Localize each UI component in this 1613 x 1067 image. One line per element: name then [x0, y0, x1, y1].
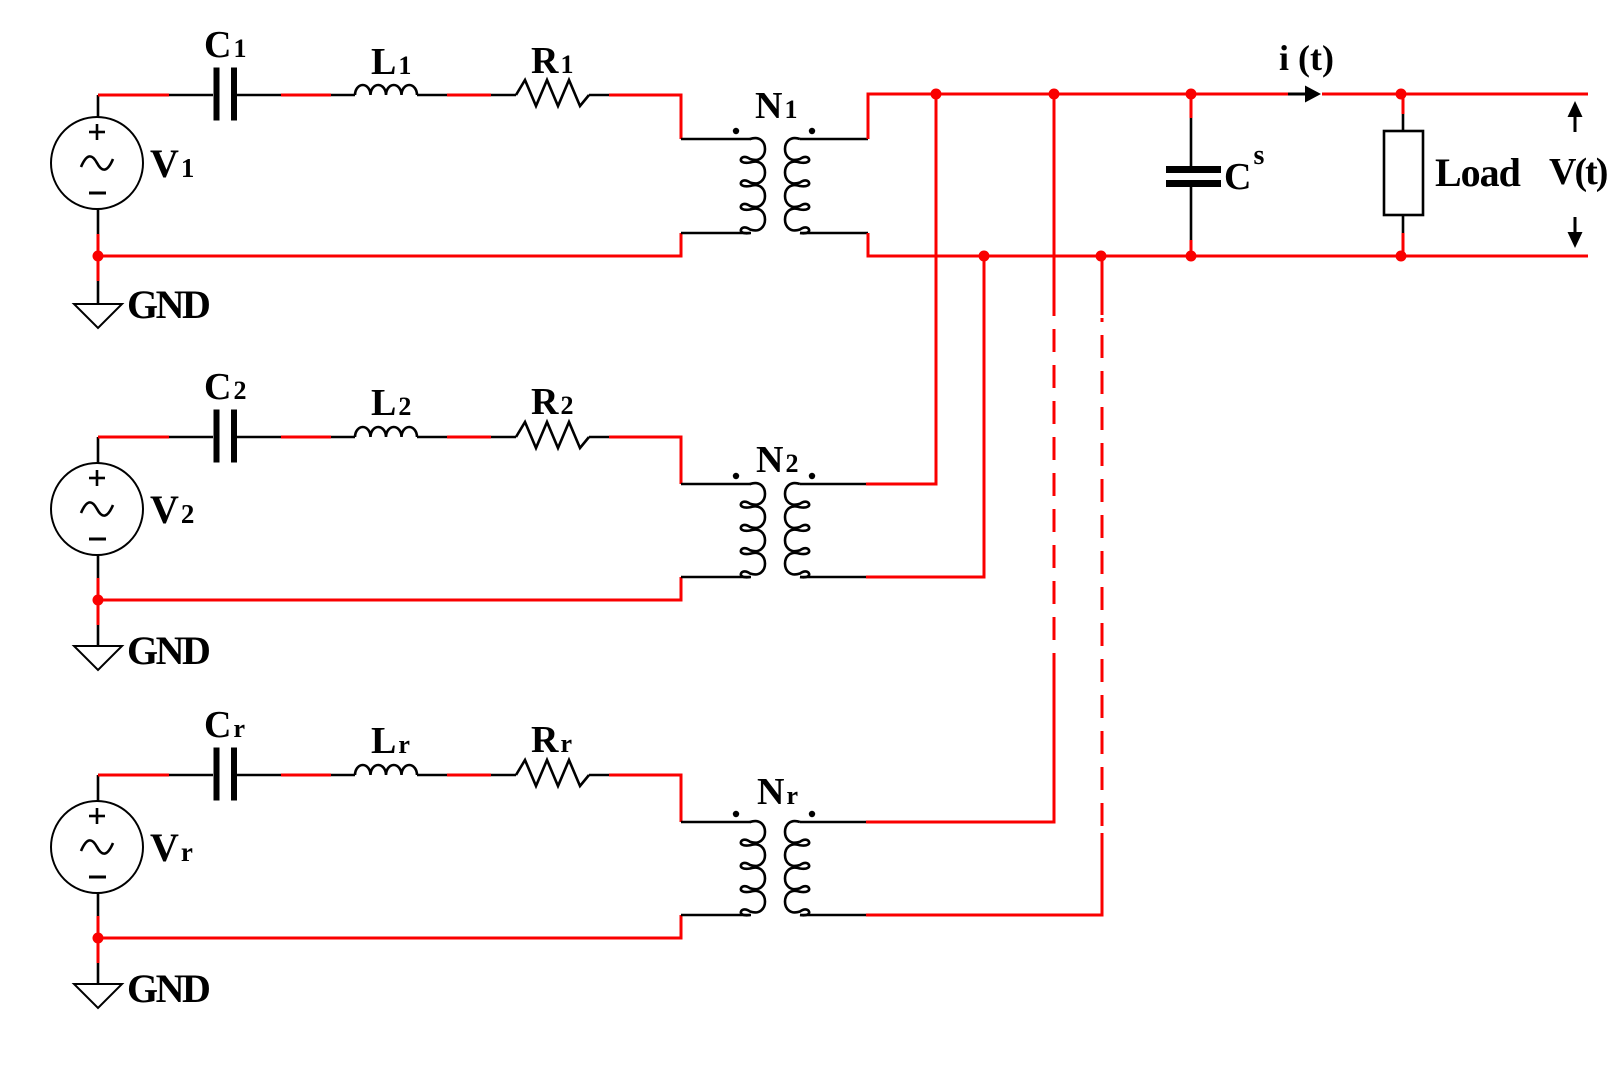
- current arrow i(t): [1288, 86, 1321, 103]
- voltage source V2: [51, 463, 143, 555]
- wire black after capacitor: [237, 94, 281, 97]
- wire red segment: [447, 774, 491, 777]
- wire black to inductor: [331, 94, 355, 97]
- wire red segment: [447, 94, 491, 97]
- wire red riser solid lower part: [1053, 676, 1056, 822]
- svg-text:GND: GND: [127, 282, 209, 327]
- wire top red from source: [98, 774, 169, 777]
- wire black primary bottom lead: [681, 232, 751, 235]
- wire red segment: [281, 94, 331, 97]
- wire black primary top lead: [681, 138, 751, 141]
- wire top red from source: [98, 436, 169, 439]
- wire red stub from top bus: [1402, 94, 1405, 114]
- capacitor Cr: [217, 748, 235, 801]
- wire red segment: [281, 436, 331, 439]
- wire red bottom return: [98, 599, 683, 602]
- capacitor Cs: [1166, 170, 1221, 184]
- wire red to dashed riser: [866, 914, 1104, 917]
- resistor R1: [516, 80, 589, 106]
- voltage source V1: [51, 117, 143, 209]
- voltage source Vr: [51, 801, 143, 893]
- wire N1 secondary top lead: [800, 138, 868, 141]
- wire red up to top bus: [867, 93, 870, 140]
- wire red riser solid top part: [1053, 94, 1056, 311]
- node bottom bus junction 1: [979, 251, 990, 262]
- wire black after inductor: [417, 94, 447, 97]
- transformer N1 secondary winding: [785, 138, 809, 233]
- wire N1 secondary bottom lead: [800, 232, 868, 235]
- wire black to resistor: [491, 774, 516, 777]
- wire red to dashed riser: [866, 821, 1056, 824]
- transformer N2 primary winding: [741, 483, 765, 577]
- wire to ground: [97, 938, 100, 984]
- capacitor C1: [217, 68, 235, 121]
- wire black after inductor: [417, 436, 447, 439]
- wire black after resistor: [589, 94, 609, 97]
- wire red stub to bottom bus: [1190, 240, 1193, 256]
- wire black primary bottom lead: [681, 914, 751, 917]
- resistor Rr: [516, 760, 589, 786]
- ground: [74, 304, 122, 328]
- node top bus junction 4: [1396, 89, 1407, 100]
- phase dot primary: [733, 811, 739, 817]
- inductor Lr: [355, 765, 417, 775]
- wire red to corner: [609, 94, 683, 97]
- wire red corner down to primary: [680, 436, 683, 485]
- wire black to inductor: [331, 436, 355, 439]
- wire red to vertical riser: [866, 483, 938, 486]
- wire red stub from top bus: [1190, 94, 1193, 118]
- wire black load top lead: [1402, 114, 1405, 131]
- arrow V(t) down: [1568, 217, 1583, 248]
- wire Nr secondary top lead: [800, 821, 866, 824]
- wire red bottom return: [98, 255, 683, 258]
- wire red riser N2 top to bus: [935, 94, 938, 484]
- node bottom bus junction 3: [1186, 251, 1197, 262]
- phase dot secondary: [809, 811, 815, 817]
- wire red corner down to primary: [680, 774, 683, 823]
- wire black after inductor: [417, 774, 447, 777]
- node junction at source bottom: [93, 595, 104, 606]
- wire N2 secondary top lead: [800, 483, 866, 486]
- phase dot primary: [733, 128, 739, 134]
- node top bus junction 1: [931, 89, 942, 100]
- wire black after resistor: [589, 436, 609, 439]
- node bottom bus junction 2: [1096, 251, 1107, 262]
- wire to ground: [97, 600, 100, 646]
- wire black to capacitor: [169, 436, 213, 439]
- wire red riser solid lower part: [1101, 833, 1104, 915]
- wire top bus: [868, 93, 1588, 96]
- wire source bottom lead: [97, 555, 100, 600]
- wire top red from source: [98, 94, 169, 97]
- wire red to corner: [609, 774, 683, 777]
- ground: [74, 984, 122, 1008]
- wire black load bottom lead: [1402, 215, 1405, 233]
- wire red riser dashed part: [1053, 308, 1056, 676]
- wire red corner down to primary: [680, 94, 683, 140]
- load resistor: [1384, 131, 1423, 215]
- wire red to corner: [609, 436, 683, 439]
- wire black to resistor: [491, 94, 516, 97]
- ground: [74, 646, 122, 670]
- resistor R2: [516, 422, 589, 448]
- transformer N2 secondary winding: [785, 483, 809, 577]
- transformer N1 primary winding: [741, 138, 765, 233]
- node top bus junction 2: [1049, 89, 1060, 100]
- wire black primary top lead: [681, 821, 751, 824]
- wire source top lead: [97, 437, 100, 463]
- wire black capacitor bottom lead: [1190, 186, 1193, 240]
- svg-text:V(t): V(t): [1549, 151, 1607, 193]
- wire source bottom lead: [97, 893, 100, 938]
- node junction at source bottom: [93, 933, 104, 944]
- inductor L2: [355, 427, 417, 437]
- wire black to capacitor: [169, 774, 213, 777]
- wire source bottom lead: [97, 209, 100, 256]
- arrow V(t) up: [1568, 101, 1583, 132]
- wire red stub to bottom bus: [1402, 233, 1405, 256]
- wire red riser N2 bottom to bus: [983, 256, 986, 577]
- wire black after capacitor: [237, 436, 281, 439]
- node top bus junction 3: [1186, 89, 1197, 100]
- wire red riser solid top part: [1101, 256, 1104, 315]
- phase dot secondary: [809, 473, 815, 479]
- wire Nr secondary bottom lead: [800, 914, 866, 917]
- wire to ground: [97, 256, 100, 304]
- wire source top lead: [97, 95, 100, 117]
- wire red corner up to primary bottom: [680, 233, 683, 256]
- wire black primary bottom lead: [681, 576, 751, 579]
- wire bottom bus: [868, 255, 1588, 258]
- wire N2 secondary bottom lead: [800, 576, 866, 579]
- svg-text:GND: GND: [127, 966, 209, 1011]
- wire black to resistor: [491, 436, 516, 439]
- node junction at source bottom: [93, 251, 104, 262]
- svg-text:i (t): i (t): [1279, 38, 1334, 78]
- inductor L1: [355, 85, 417, 95]
- wire red corner up to primary bottom: [680, 915, 683, 938]
- node bottom bus junction 4: [1396, 251, 1407, 262]
- wire red bottom return: [98, 937, 683, 940]
- capacitor C2: [217, 410, 235, 463]
- wire source top lead: [97, 775, 100, 801]
- wire black to capacitor: [169, 94, 213, 97]
- wire red riser dashed part: [1101, 318, 1104, 826]
- wire red to vertical riser: [866, 576, 986, 579]
- svg-text:Load: Load: [1435, 150, 1521, 195]
- wire red corner up to primary bottom: [680, 577, 683, 600]
- transformer Nr primary winding: [741, 821, 765, 915]
- phase dot primary: [733, 473, 739, 479]
- wire black after resistor: [589, 774, 609, 777]
- wire red down to bottom bus: [867, 233, 870, 258]
- wire black primary top lead: [681, 483, 751, 486]
- wire red segment: [447, 436, 491, 439]
- svg-text:GND: GND: [127, 628, 209, 673]
- wire black to inductor: [331, 774, 355, 777]
- wire black after capacitor: [237, 774, 281, 777]
- phase dot secondary: [809, 128, 815, 134]
- wire red segment: [281, 774, 331, 777]
- wire black capacitor top lead: [1190, 118, 1193, 167]
- transformer Nr secondary winding: [785, 821, 809, 915]
